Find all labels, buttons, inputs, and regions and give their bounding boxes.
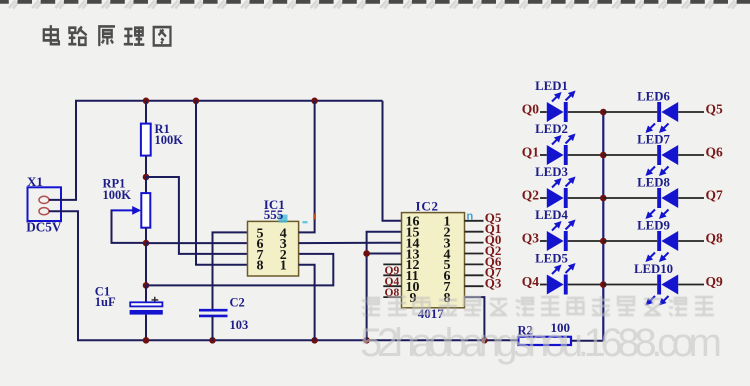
wire LED cathode column xyxy=(602,112,604,341)
LED10 xyxy=(634,262,678,304)
svg-text:1: 1 xyxy=(280,259,287,274)
wire column to LED6 xyxy=(603,111,657,113)
svg-text:1uF: 1uF xyxy=(95,295,116,309)
svg-text:LED2: LED2 xyxy=(535,122,568,136)
wire LED7 to Q6 xyxy=(678,154,704,156)
wire column to LED8 xyxy=(603,197,657,199)
wire trigger loop to 555 pin2 xyxy=(146,254,333,286)
svg-text:IC2: IC2 xyxy=(416,198,439,213)
node gnd-C2 xyxy=(209,337,216,344)
svg-text:Q9: Q9 xyxy=(706,274,724,289)
X1 pin 2 circle xyxy=(39,208,49,215)
svg-text:Q2: Q2 xyxy=(522,188,540,203)
potentiometer RP1 xyxy=(103,177,151,228)
wire IC2 pin13 branch xyxy=(367,253,402,255)
wire LED8 to Q7 xyxy=(678,197,704,199)
svg-text:LED7: LED7 xyxy=(637,133,670,147)
wire RP1 bottom lead xyxy=(145,228,147,243)
wire LED2 to column xyxy=(568,154,604,156)
watermark line 1 xyxy=(362,296,714,316)
wire IC2 left stub xyxy=(383,285,401,287)
wire LED1 to column xyxy=(568,111,604,113)
svg-text:555: 555 xyxy=(264,207,284,222)
wire IC2 left stub xyxy=(383,296,401,298)
X1 pin 1 circle xyxy=(39,196,49,203)
svg-text:LED9: LED9 xyxy=(637,219,670,233)
wire LED3 to column xyxy=(568,197,604,199)
wire column to LED7 xyxy=(603,154,657,156)
svg-text:DC5V: DC5V xyxy=(26,219,62,234)
wire node down to C1 xyxy=(145,243,147,285)
svg-text:Q8: Q8 xyxy=(706,231,724,246)
node gnd-C1 xyxy=(143,337,150,344)
timer IC1 555 box xyxy=(248,221,299,276)
wire R2 to LED column xyxy=(571,340,603,342)
node gnd-IC2 pin8 xyxy=(481,337,488,344)
svg-text:X1: X1 xyxy=(27,174,43,189)
wire node to 555 pin6 xyxy=(146,242,248,244)
wire RP1 top lead xyxy=(145,177,147,193)
svg-text:LED4: LED4 xyxy=(535,208,568,222)
LED4 xyxy=(535,208,574,251)
wire IC2 pin15 to ground xyxy=(367,232,402,341)
svg-text:100K: 100K xyxy=(103,188,132,202)
node C1-trigger xyxy=(143,282,150,289)
wire IC2 right stub xyxy=(465,263,484,265)
node gnd-555 pin1 xyxy=(311,337,318,344)
node R1-RP1-pin7 xyxy=(143,174,150,181)
node RP1-C1-pin6 xyxy=(143,240,150,247)
wire IC2 left stub xyxy=(383,263,401,265)
svg-text:Q3: Q3 xyxy=(485,276,502,291)
connector X1 xyxy=(26,174,62,234)
node IC2 pin13/15 gnd xyxy=(363,250,370,257)
wire VCC top rail xyxy=(75,100,383,102)
wire X1 pin1 to VCC rail xyxy=(49,101,76,200)
node VCC-555 pin4 branch xyxy=(311,98,318,105)
IC2 label xyxy=(416,198,474,222)
wire R1 bottom lead xyxy=(145,156,147,177)
node column row 3 xyxy=(600,195,607,202)
wire LED4 to column xyxy=(568,240,604,242)
wire LED5 to column xyxy=(568,284,604,286)
svg-text:Q4: Q4 xyxy=(522,274,540,289)
node VCC-R1 xyxy=(143,98,150,105)
LED9 xyxy=(637,219,678,261)
wire Q0 to LED1 xyxy=(540,111,547,113)
svg-text:103: 103 xyxy=(230,318,249,332)
node column row 5 xyxy=(600,281,607,288)
wire IC2 right stub xyxy=(465,253,484,255)
resistor R2 xyxy=(518,320,572,345)
wire Q1 to LED2 xyxy=(540,154,547,156)
svg-text:Q0: Q0 xyxy=(522,102,540,117)
svg-text:52haobangshou.1688.com: 52haobangshou.1688.com xyxy=(360,321,722,365)
svg-text:8: 8 xyxy=(257,259,264,274)
wire LED10 to Q9 xyxy=(678,284,704,286)
wire 555 pin3 to IC2 pin14 xyxy=(299,242,402,244)
svg-text:LED10: LED10 xyxy=(634,262,673,276)
svg-text:LED1: LED1 xyxy=(535,79,568,93)
svg-text:Q1: Q1 xyxy=(522,145,540,160)
LED2 xyxy=(535,122,574,165)
svg-text:LED5: LED5 xyxy=(535,252,568,266)
LED7 xyxy=(637,133,678,175)
node column row 1 xyxy=(600,109,607,116)
node VCC-555 pin8 branch xyxy=(193,98,200,105)
wire IC2 right stub xyxy=(465,285,484,287)
LED3 xyxy=(535,165,574,208)
node column row 4 xyxy=(600,238,607,245)
wire IC2 right stub xyxy=(465,242,484,244)
wire node to 555 pin7 xyxy=(146,177,248,254)
LED5 xyxy=(535,252,574,295)
wire column to LED9 xyxy=(603,240,657,242)
wire IC2 left stub xyxy=(383,274,401,276)
artifact red tick xyxy=(313,214,316,220)
wire Q2 to LED3 xyxy=(540,197,547,199)
node gnd-IC2 pin13/15 xyxy=(363,337,370,344)
wire IC2 pin8 to ground xyxy=(465,297,485,340)
wire C1 bottom lead xyxy=(145,315,147,341)
LED1 xyxy=(535,79,574,122)
wire ground rail xyxy=(77,339,518,341)
svg-text:LED3: LED3 xyxy=(535,165,568,179)
wire IC2 right stub xyxy=(465,220,484,222)
wire R1 top lead xyxy=(145,101,147,124)
wire 555 pin4 to VCC xyxy=(299,101,315,233)
svg-text:C2: C2 xyxy=(230,295,245,309)
wire 555 pin5 to C2 xyxy=(213,232,248,310)
node column row 2 xyxy=(600,152,607,159)
wire C2 bottom lead xyxy=(212,316,214,340)
wire VCC to 555 pin8 xyxy=(196,101,248,265)
svg-text:LED8: LED8 xyxy=(637,176,670,190)
wire RP1 wiper loop xyxy=(112,210,146,243)
wire IC2 right stub xyxy=(465,231,484,233)
wire LED9 to Q8 xyxy=(678,240,704,242)
wire Q3 to LED4 xyxy=(540,240,547,242)
counter IC2 4017 box xyxy=(402,213,465,308)
IC1 label xyxy=(264,197,308,224)
svg-text:Q3: Q3 xyxy=(522,231,540,246)
wire column to LED10 xyxy=(603,284,657,286)
wire 555 pin1 to ground xyxy=(299,265,315,341)
wire Q4 to LED5 xyxy=(540,284,547,286)
svg-text:100K: 100K xyxy=(155,133,184,147)
title 电路原理图 xyxy=(44,25,171,46)
capacitor C1 xyxy=(95,285,163,315)
capacitor C2 xyxy=(199,295,248,331)
svg-text:LED6: LED6 xyxy=(637,90,670,104)
resistor R1 xyxy=(141,122,183,155)
LED6 xyxy=(637,90,678,132)
wire IC2 right stub xyxy=(465,274,484,276)
svg-text:Q5: Q5 xyxy=(706,102,724,117)
wire X1 pin2 to ground rail xyxy=(49,211,78,340)
svg-text:Q6: Q6 xyxy=(706,145,724,160)
LED8 xyxy=(637,176,678,218)
svg-text:Q7: Q7 xyxy=(706,188,724,203)
wire LED6 to Q5 xyxy=(678,111,704,113)
wire VCC rail to IC2 pin16 xyxy=(383,101,402,221)
